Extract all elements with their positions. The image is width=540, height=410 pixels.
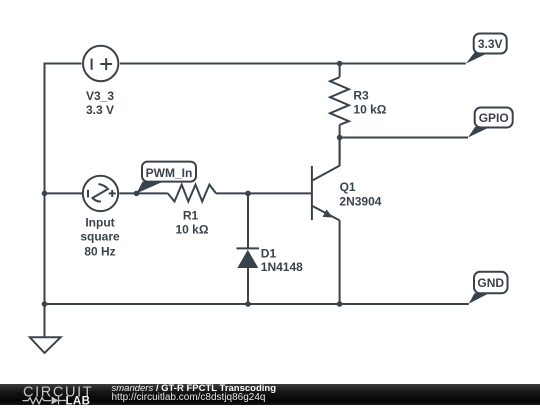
wire R3 top [339, 64, 341, 78]
junction D1 anode at bottom rail [245, 301, 251, 307]
wire diode bottom [247, 268, 249, 305]
voltage source V3_3 [83, 46, 118, 81]
wire top rail [45, 64, 82, 194]
svg-text:Input: Input [85, 216, 114, 230]
node GND flag [469, 272, 508, 304]
emitter arrow [323, 209, 333, 217]
svg-text:PWM_In: PWM_In [146, 166, 193, 180]
svg-text:http://circuitlab.com/c8dstjq8: http://circuitlab.com/c8dstjq86g24q [112, 392, 266, 403]
svg-text:LAB: LAB [66, 396, 91, 405]
wire R1 to base [216, 192, 312, 194]
svg-text:2N3904: 2N3904 [339, 195, 381, 209]
wire bottom rail [45, 303, 469, 305]
diode D1 cathode bar [237, 247, 260, 249]
junction emitter at bottom rail [337, 301, 343, 307]
resistor R1 [168, 185, 216, 202]
wire collector vertical [339, 138, 341, 166]
svg-text:R1: R1 [183, 209, 199, 223]
wire emitter vertical [339, 220, 341, 304]
node PWM_In attachment dot [134, 191, 140, 197]
svg-text:10 kΩ: 10 kΩ [353, 102, 386, 116]
node PWM_In flag [137, 162, 197, 194]
source Input square [83, 176, 118, 211]
svg-text:D1: D1 [261, 246, 277, 260]
wire top right [120, 63, 466, 65]
svg-text:square: square [80, 230, 120, 244]
junction R3/collector/GPIO [337, 135, 343, 141]
svg-text:Q1: Q1 [340, 180, 356, 194]
junction top rail at R3 [337, 61, 343, 67]
wire ground stub [44, 304, 46, 337]
junction left rail at input row [42, 191, 48, 197]
svg-text:R3: R3 [353, 89, 369, 103]
svg-text:10 kΩ: 10 kΩ [176, 223, 209, 237]
node GPIO flag [468, 108, 513, 138]
junction R1/D1/base [245, 191, 251, 197]
svg-text:3.3 V: 3.3 V [86, 103, 114, 117]
transistor Q1 [311, 166, 313, 220]
svg-text:GND: GND [477, 276, 504, 290]
wire GPIO [340, 137, 468, 139]
node 3.3V flag [466, 34, 507, 64]
ground [30, 337, 61, 353]
svg-text:V3_3: V3_3 [86, 89, 114, 103]
wire input left [45, 192, 83, 194]
resistor R3 [330, 77, 349, 125]
diode D1 [237, 250, 258, 268]
CircuitLab logo resistor-diode art [23, 397, 67, 405]
svg-text:GPIO: GPIO [479, 111, 509, 125]
svg-text:3.3V: 3.3V [478, 37, 503, 51]
svg-text:1N4148: 1N4148 [261, 260, 303, 274]
wire input to R1 [119, 192, 168, 194]
junction left rail at bottom rail [42, 301, 48, 307]
wire R3 bottom [339, 125, 341, 138]
svg-text:80 Hz: 80 Hz [84, 245, 115, 259]
wire diode top [247, 193, 249, 249]
wire left rail lower [44, 193, 46, 304]
